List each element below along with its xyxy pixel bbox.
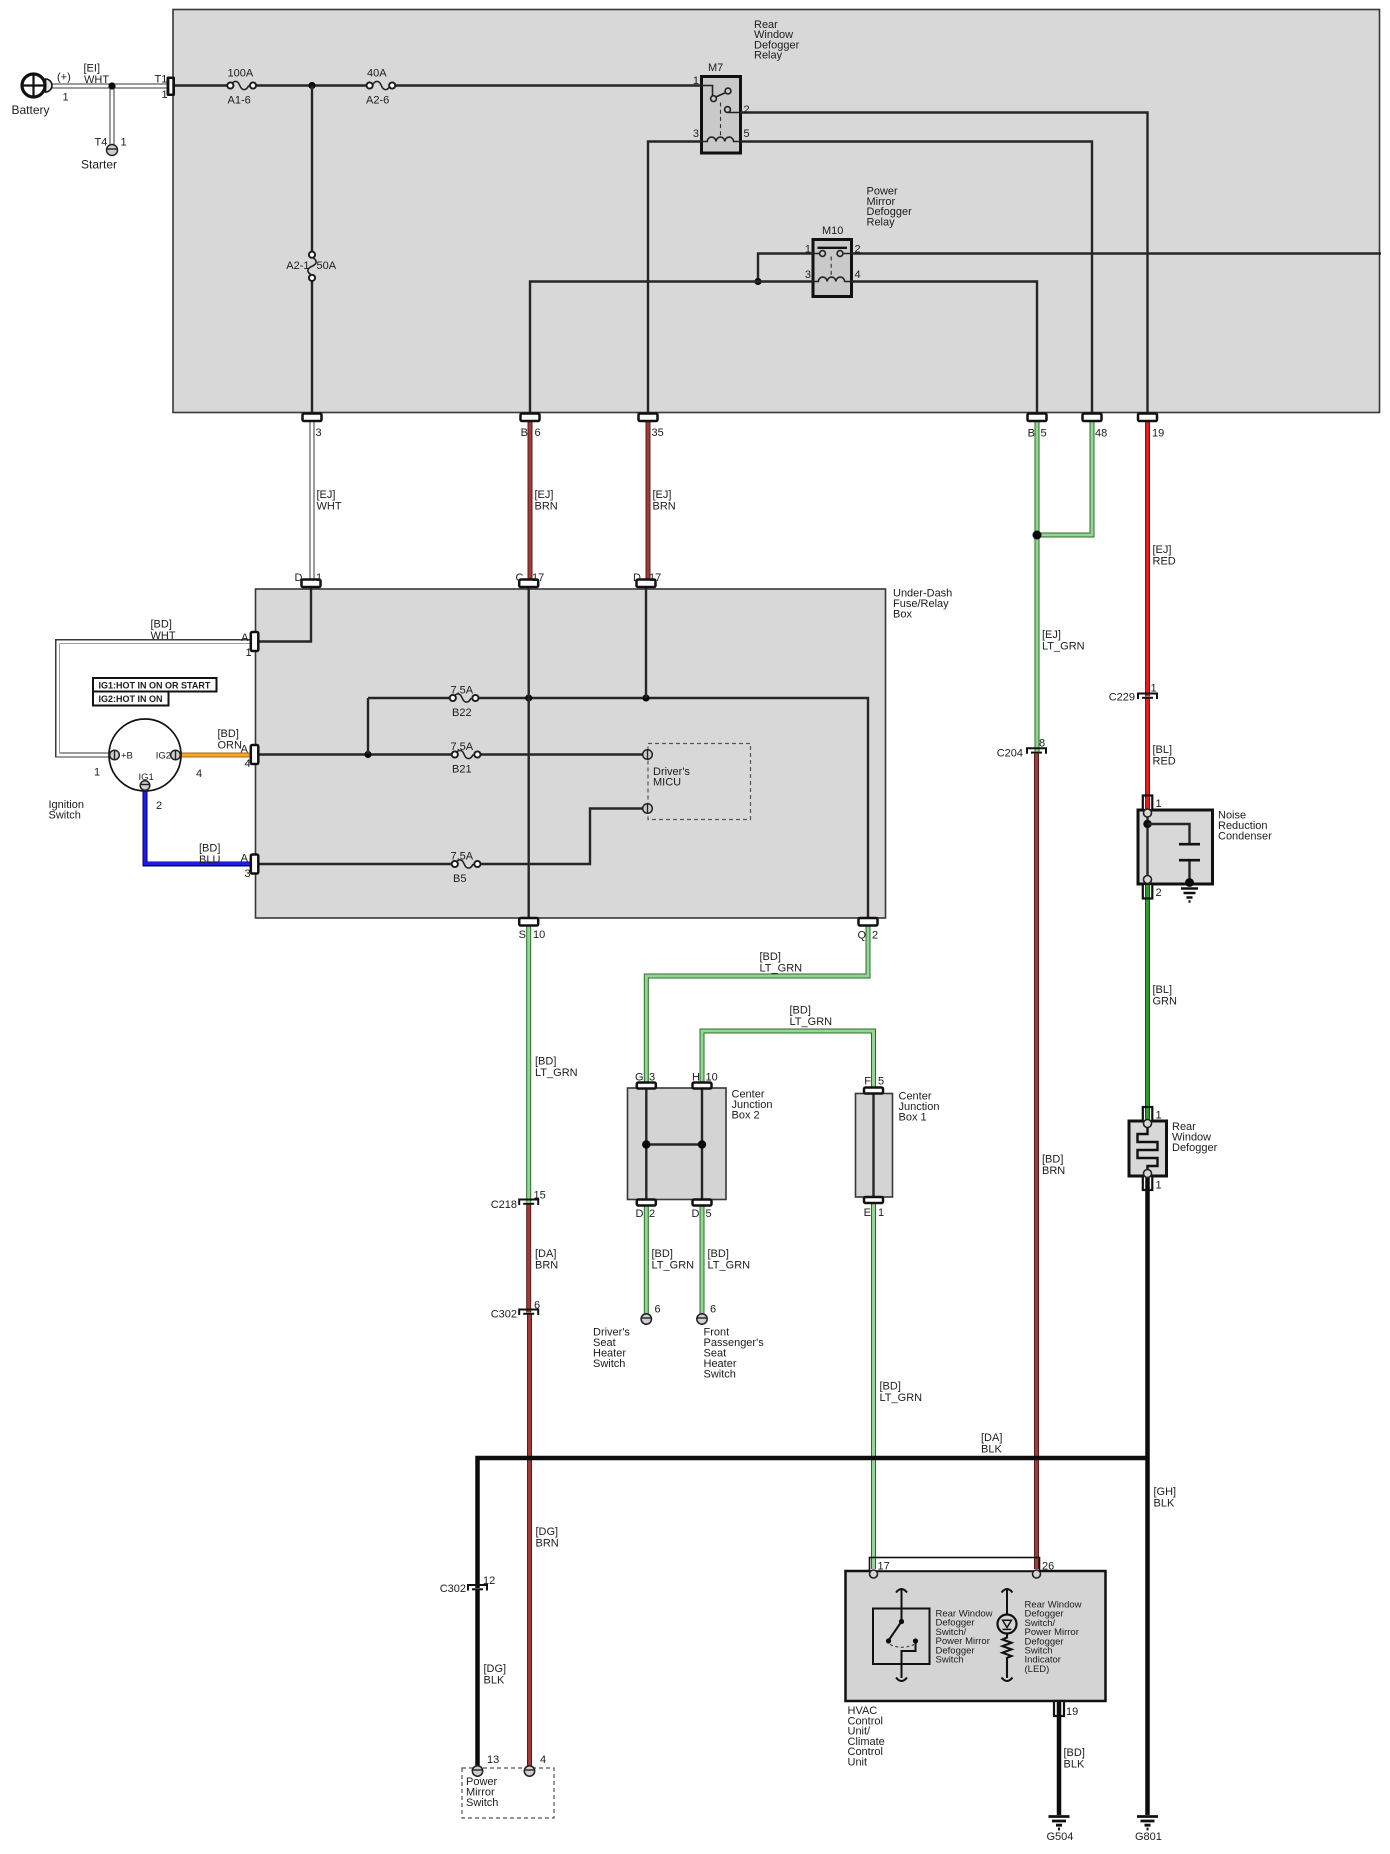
front passenger's seat heater switch terminal 6 [697, 1314, 707, 1324]
connector A1 bar (left edge) [251, 632, 258, 651]
wire [DA] BRN C218 to C302 [526, 1205, 531, 1313]
svg-text:GRN: GRN [1153, 996, 1178, 1008]
relay M10 internals [813, 248, 852, 282]
svg-text:Switch: Switch [466, 1797, 498, 1809]
svg-text:Relay: Relay [754, 50, 783, 62]
connector G3 bar (CJB2 top) [637, 1083, 656, 1089]
svg-text:BLK: BLK [981, 1444, 1002, 1456]
svg-text:E: E [864, 1207, 871, 1219]
svg-text:[BL]: [BL] [1153, 744, 1173, 756]
svg-text:A: A [241, 632, 249, 644]
node B22/C17 junction [525, 694, 532, 701]
svg-text:35: 35 [652, 427, 664, 439]
inline connector C204 [1027, 748, 1046, 754]
svg-text:Relay: Relay [867, 216, 896, 228]
wire A1 to D1 inside box [258, 587, 311, 642]
fuse B5 7.5A [452, 860, 481, 868]
connector S10 bar (under-dash bottom) [519, 918, 538, 926]
relay box M7 [702, 77, 741, 154]
svg-text:C: C [516, 572, 524, 584]
svg-text:[EJ]: [EJ] [535, 489, 554, 501]
svg-text:C302: C302 [491, 1309, 517, 1321]
wire [DG] BRN C302 down to power mirror switch pin 4 [527, 1315, 532, 1767]
svg-text:BRN: BRN [535, 1260, 558, 1272]
svg-text:Box 2: Box 2 [732, 1110, 760, 1122]
wire [EJ] LT_GRN B5 down to C204 [1035, 418, 1040, 752]
wire [BD] BLU IG1 to A3 [145, 790, 251, 864]
svg-text:8: 8 [1039, 738, 1045, 750]
wire CJB2 cross link [646, 1143, 702, 1145]
svg-text:10: 10 [706, 1072, 718, 1084]
svg-text:26: 26 [1042, 1561, 1054, 1573]
svg-text:D: D [692, 1208, 700, 1220]
connector Q2 bar [859, 918, 878, 926]
svg-text:B: B [521, 427, 528, 439]
svg-text:T1: T1 [155, 74, 168, 86]
wire G3-D2 inside CJB2 [645, 1088, 647, 1200]
MICU terminal pin from B21 [643, 750, 653, 760]
svg-text:1: 1 [162, 89, 168, 101]
wire [BL] GRN condenser pin 2 to defogger pin 1 [1145, 884, 1150, 1122]
fuse 100A A1-6 [227, 81, 256, 89]
svg-text:M10: M10 [822, 225, 843, 237]
inline connector C229 [1138, 694, 1157, 700]
svg-text:[BD]: [BD] [652, 1248, 673, 1260]
node main bus junction at A2-1 branch [308, 82, 315, 89]
node M10 pin1/pin3 junction [754, 278, 761, 285]
svg-text:[EI]: [EI] [84, 63, 101, 75]
wire M7 pin 2 right and down to connector 19 [741, 113, 1148, 417]
wire battery to T1 (WHT double line) [52, 84, 167, 89]
svg-text:Switch: Switch [593, 1358, 625, 1370]
svg-text:LT_GRN: LT_GRN [880, 1392, 923, 1404]
svg-text:Defogger: Defogger [1172, 1142, 1218, 1154]
driver's seat heater switch terminal 6 [641, 1314, 651, 1324]
svg-text:1: 1 [94, 767, 100, 779]
svg-text:[DG]: [DG] [536, 1526, 559, 1538]
HVAC pin 26 circle [1033, 1570, 1041, 1578]
wire C17 vertical to S10 [528, 587, 530, 918]
svg-text:19: 19 [1152, 428, 1164, 440]
svg-text:A: A [241, 744, 249, 756]
ground G504 [1049, 1817, 1070, 1830]
svg-text:1: 1 [1151, 683, 1157, 695]
wire M7 pin 5 right and down to connector 48 [741, 142, 1093, 417]
noise reduction condenser box [1138, 810, 1213, 884]
svg-text:B5: B5 [453, 873, 466, 885]
svg-text:Box: Box [893, 609, 912, 621]
power mirror switch terminal 4 [524, 1766, 534, 1776]
svg-text:40A: 40A [367, 68, 387, 80]
wire 100A fuse to 40A fuse [256, 84, 367, 86]
svg-text:10: 10 [533, 929, 545, 941]
svg-text:15: 15 [534, 1190, 546, 1202]
MICU terminal pin from B5 [643, 804, 653, 814]
connector 35 bar [639, 414, 658, 422]
svg-text:2: 2 [744, 104, 750, 116]
wire T1 into box to fuse 100A [175, 84, 228, 86]
wire D17 vertical [645, 587, 647, 698]
connector A4 bar [251, 745, 258, 764]
wire [BD] LT_GRN D5 to passenger seat heater switch [700, 1205, 705, 1315]
relay box M10 [813, 240, 852, 297]
connector 19 bar [1138, 414, 1157, 422]
power mirror switch terminal 13 [472, 1766, 482, 1776]
legend box IG1 [93, 678, 217, 692]
wire [EJ] RED 19 down to C229 [1145, 418, 1150, 697]
node battery/starter junction [108, 82, 115, 89]
connector C17 bar [519, 580, 538, 588]
svg-text:WHT: WHT [317, 501, 342, 513]
wire A4/B21 row to MICU [258, 753, 452, 755]
svg-text:LT_GRN: LT_GRN [790, 1016, 833, 1028]
fuse A2-1 50A (vertical) [308, 252, 316, 281]
svg-text:[BD]: [BD] [151, 619, 172, 631]
engine compartment fuse/relay box (gray) [173, 10, 1380, 413]
fuse B21 7.5A [452, 750, 481, 758]
HVAC defogger switch symbol [873, 1589, 930, 1681]
connector D17 bar [637, 580, 656, 588]
svg-text:ORN: ORN [218, 740, 243, 752]
svg-text:50A: 50A [317, 260, 337, 272]
legend box IG2 [93, 692, 169, 706]
HVAC pin 17 circle [870, 1570, 878, 1578]
node A4 branch junction [364, 751, 371, 758]
svg-text:[EJ]: [EJ] [1153, 544, 1172, 556]
starter terminal [107, 145, 118, 156]
svg-text:100A: 100A [228, 68, 254, 80]
svg-text:Battery: Battery [12, 103, 50, 117]
condenser internals [1143, 809, 1200, 902]
rear window defogger box [1129, 1121, 1167, 1176]
center junction box 2 [628, 1088, 727, 1200]
svg-text:1: 1 [246, 647, 252, 659]
svg-text:A2-6: A2-6 [366, 95, 389, 107]
svg-text:LT_GRN: LT_GRN [535, 1067, 578, 1079]
svg-text:[BL]: [BL] [1153, 984, 1173, 996]
svg-text:Unit: Unit [848, 1757, 868, 1769]
connector A3 bar [251, 855, 258, 874]
ignition IG1 terminal [140, 781, 150, 791]
svg-text:1: 1 [1156, 798, 1162, 810]
wire [BD] BLK HVAC pin 19 to ground G504 [1057, 1714, 1062, 1815]
svg-text:1: 1 [693, 75, 699, 87]
relay M7 internals [702, 86, 741, 142]
svg-text:4: 4 [196, 768, 202, 780]
connector 3 bar (box1 bottom) [303, 414, 322, 422]
svg-text:BRN: BRN [1042, 1165, 1065, 1177]
svg-text:D: D [295, 572, 303, 584]
svg-text:1: 1 [121, 137, 127, 149]
svg-text:D: D [633, 572, 641, 584]
svg-text:13: 13 [487, 1754, 499, 1766]
svg-text:(LED): (LED) [1025, 1664, 1050, 1675]
svg-text:A2-1: A2-1 [286, 260, 309, 272]
svg-text:M7: M7 [708, 62, 723, 74]
svg-text:H: H [692, 1072, 700, 1084]
node CJB2 right junction [698, 1140, 706, 1148]
wire M10 pin 1 left and down to coil bus [758, 254, 813, 282]
wire M10 pin 4 right and down to connector B5 [852, 282, 1038, 417]
svg-text:WHT: WHT [151, 630, 176, 642]
svg-text:1: 1 [1156, 1180, 1162, 1192]
connector D5 bar [693, 1200, 712, 1206]
svg-text:[BD]: [BD] [1042, 1154, 1063, 1166]
ignition +B terminal [110, 750, 120, 760]
svg-text:BRN: BRN [535, 501, 558, 513]
wire [BD] LT_GRN E1 down to HVAC pin 17 [871, 1202, 876, 1570]
svg-text:D: D [636, 1208, 644, 1220]
svg-text:S: S [519, 929, 526, 941]
wire [BD] BRN C204 down to HVAC pin 26 [1034, 754, 1039, 1569]
node LT_GRN junction [1033, 531, 1042, 540]
wire 40A fuse to relay M7 pin 1 [394, 84, 701, 86]
connector F5 bar (CJB1 top) [864, 1088, 883, 1094]
svg-text:2: 2 [872, 930, 878, 942]
svg-text:C204: C204 [997, 748, 1023, 760]
svg-text:IG1: IG1 [139, 772, 154, 783]
center junction box 1 [856, 1094, 893, 1198]
svg-text:[EJ]: [EJ] [317, 489, 336, 501]
ignition IG2 terminal [171, 750, 181, 760]
wire [BD] ORN IG2 to A4 [180, 753, 251, 758]
svg-text:1: 1 [316, 572, 322, 584]
svg-text:B21: B21 [452, 764, 472, 776]
svg-text:19: 19 [1066, 1706, 1078, 1718]
wire B6 connector up and right to M10 pin 3 [530, 282, 813, 417]
svg-text:BLK: BLK [1154, 1498, 1175, 1510]
under-dash fuse/relay box (gray) [256, 589, 886, 918]
inline connector C218 [519, 1200, 538, 1206]
wire [EJ] LT_GRN 48 down and left join [1037, 418, 1092, 535]
svg-text:17: 17 [649, 572, 661, 584]
svg-text:[BD]: [BD] [880, 1381, 901, 1393]
wire [BD] LT_GRN H10 up-right to F5 [702, 1031, 874, 1091]
svg-text:Condenser: Condenser [1218, 831, 1272, 843]
svg-text:IG1:HOT IN ON OR START: IG1:HOT IN ON OR START [99, 681, 211, 691]
svg-text:LT_GRN: LT_GRN [708, 1260, 751, 1272]
wire [BD] LT_GRN D2 to driver's seat heater switch [644, 1205, 649, 1315]
wire B22 row to Q2 [368, 697, 450, 699]
svg-text:C218: C218 [491, 1199, 517, 1211]
svg-text:BLK: BLK [1064, 1759, 1085, 1771]
connector B6 bar [521, 414, 540, 422]
svg-text:BRN: BRN [653, 501, 676, 513]
inline connector C302 upper [519, 1310, 538, 1316]
defogger heater element [1138, 1120, 1158, 1178]
wire [EJ] BRN B6 to C17 [528, 418, 533, 583]
svg-text:G: G [635, 1072, 644, 1084]
wire A3/B5 row [258, 863, 452, 865]
svg-text:5: 5 [1041, 428, 1047, 440]
wire A2-1 branch down to fuse [311, 86, 313, 253]
svg-text:F: F [864, 1076, 871, 1088]
ground G801 [1137, 1817, 1158, 1830]
svg-text:7.5A: 7.5A [451, 741, 474, 753]
svg-text:Switch: Switch [49, 810, 81, 822]
svg-text:6: 6 [710, 1304, 716, 1316]
HVAC control unit box [846, 1571, 1106, 1701]
svg-text:5: 5 [744, 128, 750, 140]
svg-text:[DA]: [DA] [535, 1248, 556, 1260]
svg-text:48: 48 [1095, 428, 1107, 440]
condenser pin 1 rect [1143, 796, 1153, 811]
svg-text:[GH]: [GH] [1154, 1486, 1177, 1498]
svg-text:3: 3 [245, 868, 251, 880]
wire branch up to B22 row [367, 698, 369, 755]
wire [GH] BLK defogger pin 2 to ground G801 [1145, 1190, 1150, 1815]
wire M10 pin 2 right to edge [852, 252, 1382, 254]
HVAC pin 19 rect [1054, 1701, 1064, 1716]
svg-text:Box 1: Box 1 [899, 1112, 927, 1124]
svg-text:12: 12 [483, 1575, 495, 1587]
connector 48 bar [1083, 414, 1102, 422]
svg-text:1: 1 [878, 1207, 884, 1219]
connector B5 bar [1028, 414, 1047, 422]
svg-text:6: 6 [535, 427, 541, 439]
svg-text:G801: G801 [1135, 1831, 1162, 1843]
svg-text:[BD]: [BD] [760, 951, 781, 963]
inline connector C302 lower [468, 1585, 487, 1591]
power mirror switch dashed box [462, 1768, 554, 1818]
svg-text:LT_GRN: LT_GRN [1042, 641, 1085, 653]
svg-text:G504: G504 [1047, 1831, 1074, 1843]
svg-text:3: 3 [649, 1072, 655, 1084]
svg-text:Q: Q [857, 930, 866, 942]
svg-text:7.5A: 7.5A [451, 685, 474, 697]
svg-text:3: 3 [805, 269, 811, 281]
svg-text:4: 4 [245, 758, 251, 770]
svg-text:[EJ]: [EJ] [1042, 629, 1061, 641]
svg-text:[BD]: [BD] [218, 728, 239, 740]
svg-text:B22: B22 [452, 707, 472, 719]
driver's MICU dashed box [648, 744, 751, 820]
svg-text:[BD]: [BD] [199, 843, 220, 855]
svg-text:C229: C229 [1109, 692, 1135, 704]
svg-text:RED: RED [1153, 756, 1176, 768]
svg-text:(+): (+) [57, 72, 71, 84]
svg-text:BLK: BLK [484, 1675, 505, 1687]
svg-text:BLU: BLU [199, 854, 220, 866]
wire [BD] WHT ignition +B to A1 [58, 642, 252, 756]
svg-text:5: 5 [878, 1076, 884, 1088]
fuse B22 7.5A [450, 694, 479, 702]
svg-text:LT_GRN: LT_GRN [760, 963, 803, 975]
svg-text:3: 3 [693, 128, 699, 140]
wire H10-D5 inside CJB2 [701, 1088, 703, 1200]
wire F5-E1 inside CJB1 [872, 1094, 874, 1198]
svg-text:[DG]: [DG] [484, 1663, 507, 1675]
svg-text:A: A [241, 853, 249, 865]
wire [DA] BLK horizontal run [478, 1458, 1148, 1588]
svg-text:[EJ]: [EJ] [653, 489, 672, 501]
defogger pin 1 rect [1143, 1107, 1153, 1121]
svg-text:5: 5 [706, 1208, 712, 1220]
wire [BD] LT_GRN Q2 down-left to G3 [646, 923, 868, 1086]
HVAC connector bracket 17-26 [870, 1558, 1040, 1572]
svg-text:2: 2 [649, 1208, 655, 1220]
fuse 40A A2-6 [367, 81, 396, 89]
svg-text:2: 2 [1156, 887, 1162, 899]
node CJB2 left junction [642, 1140, 650, 1148]
svg-text:B: B [1028, 428, 1035, 440]
connector H10 bar [693, 1083, 712, 1089]
svg-text:Switch: Switch [936, 1655, 964, 1666]
ignition switch circle [109, 719, 181, 791]
svg-text:WHT: WHT [84, 74, 109, 86]
svg-text:4: 4 [540, 1754, 546, 1766]
wire A2-1 fuse to connector 3 [311, 281, 313, 416]
connector E1 bar (CJB1 bottom) [864, 1197, 883, 1203]
svg-text:IG2: IG2 [156, 751, 171, 762]
svg-text:17: 17 [532, 572, 544, 584]
battery symbol [21, 73, 52, 98]
svg-text:2: 2 [855, 244, 861, 256]
svg-text:3: 3 [316, 427, 322, 439]
svg-text:1: 1 [805, 244, 811, 256]
svg-text:[BD]: [BD] [708, 1248, 729, 1260]
T1 terminal [167, 77, 176, 97]
svg-text:[BD]: [BD] [790, 1005, 811, 1017]
wire [EJ] WHT connector3 to D1 [310, 418, 315, 583]
svg-text:Switch: Switch [704, 1369, 736, 1381]
connector D1 bar (under-dash top) [302, 580, 321, 588]
svg-text:MICU: MICU [653, 777, 681, 789]
defogger pin 2 rect [1143, 1176, 1153, 1190]
svg-text:7.5A: 7.5A [451, 851, 474, 863]
svg-text:6: 6 [534, 1300, 540, 1312]
svg-text:RED: RED [1153, 556, 1176, 568]
node B22/D17 junction [642, 694, 649, 701]
svg-text:17: 17 [878, 1561, 890, 1573]
wire [EJ] BRN 35 to D17 [646, 418, 651, 583]
wire T4 starter drop (WHT double line) [110, 86, 115, 145]
svg-text:6: 6 [655, 1304, 661, 1316]
svg-text:[BD]: [BD] [1064, 1747, 1085, 1759]
svg-text:[BD]: [BD] [535, 1056, 556, 1068]
svg-text:IG2:HOT IN ON: IG2:HOT IN ON [99, 694, 163, 704]
svg-text:2: 2 [156, 800, 162, 812]
svg-text:T4: T4 [95, 137, 108, 149]
svg-text:1: 1 [63, 92, 69, 104]
svg-text:4: 4 [855, 269, 861, 281]
condenser pin 2 rect [1143, 884, 1153, 899]
HVAC indicator LED symbol [998, 1589, 1017, 1681]
svg-text:1: 1 [1156, 1110, 1162, 1122]
wire [BD] LT_GRN S10 to C218 [526, 923, 531, 1203]
connector D2 bar (CJB2 bottom) [637, 1200, 656, 1206]
svg-text:BRN: BRN [536, 1538, 559, 1550]
wire M7 pin 3 left and down to connector 35 [648, 142, 702, 417]
svg-text:+B: +B [121, 751, 133, 762]
wire [DG] BLK C302 to power mirror switch pin 13 [475, 1590, 480, 1766]
svg-text:LT_GRN: LT_GRN [652, 1260, 695, 1272]
svg-text:C302: C302 [440, 1583, 466, 1595]
svg-text:Starter: Starter [81, 158, 117, 172]
wire [BL] RED C229 to condenser pin 1 [1145, 698, 1150, 812]
svg-text:[DA]: [DA] [981, 1432, 1002, 1444]
svg-text:A1-6: A1-6 [228, 95, 251, 107]
